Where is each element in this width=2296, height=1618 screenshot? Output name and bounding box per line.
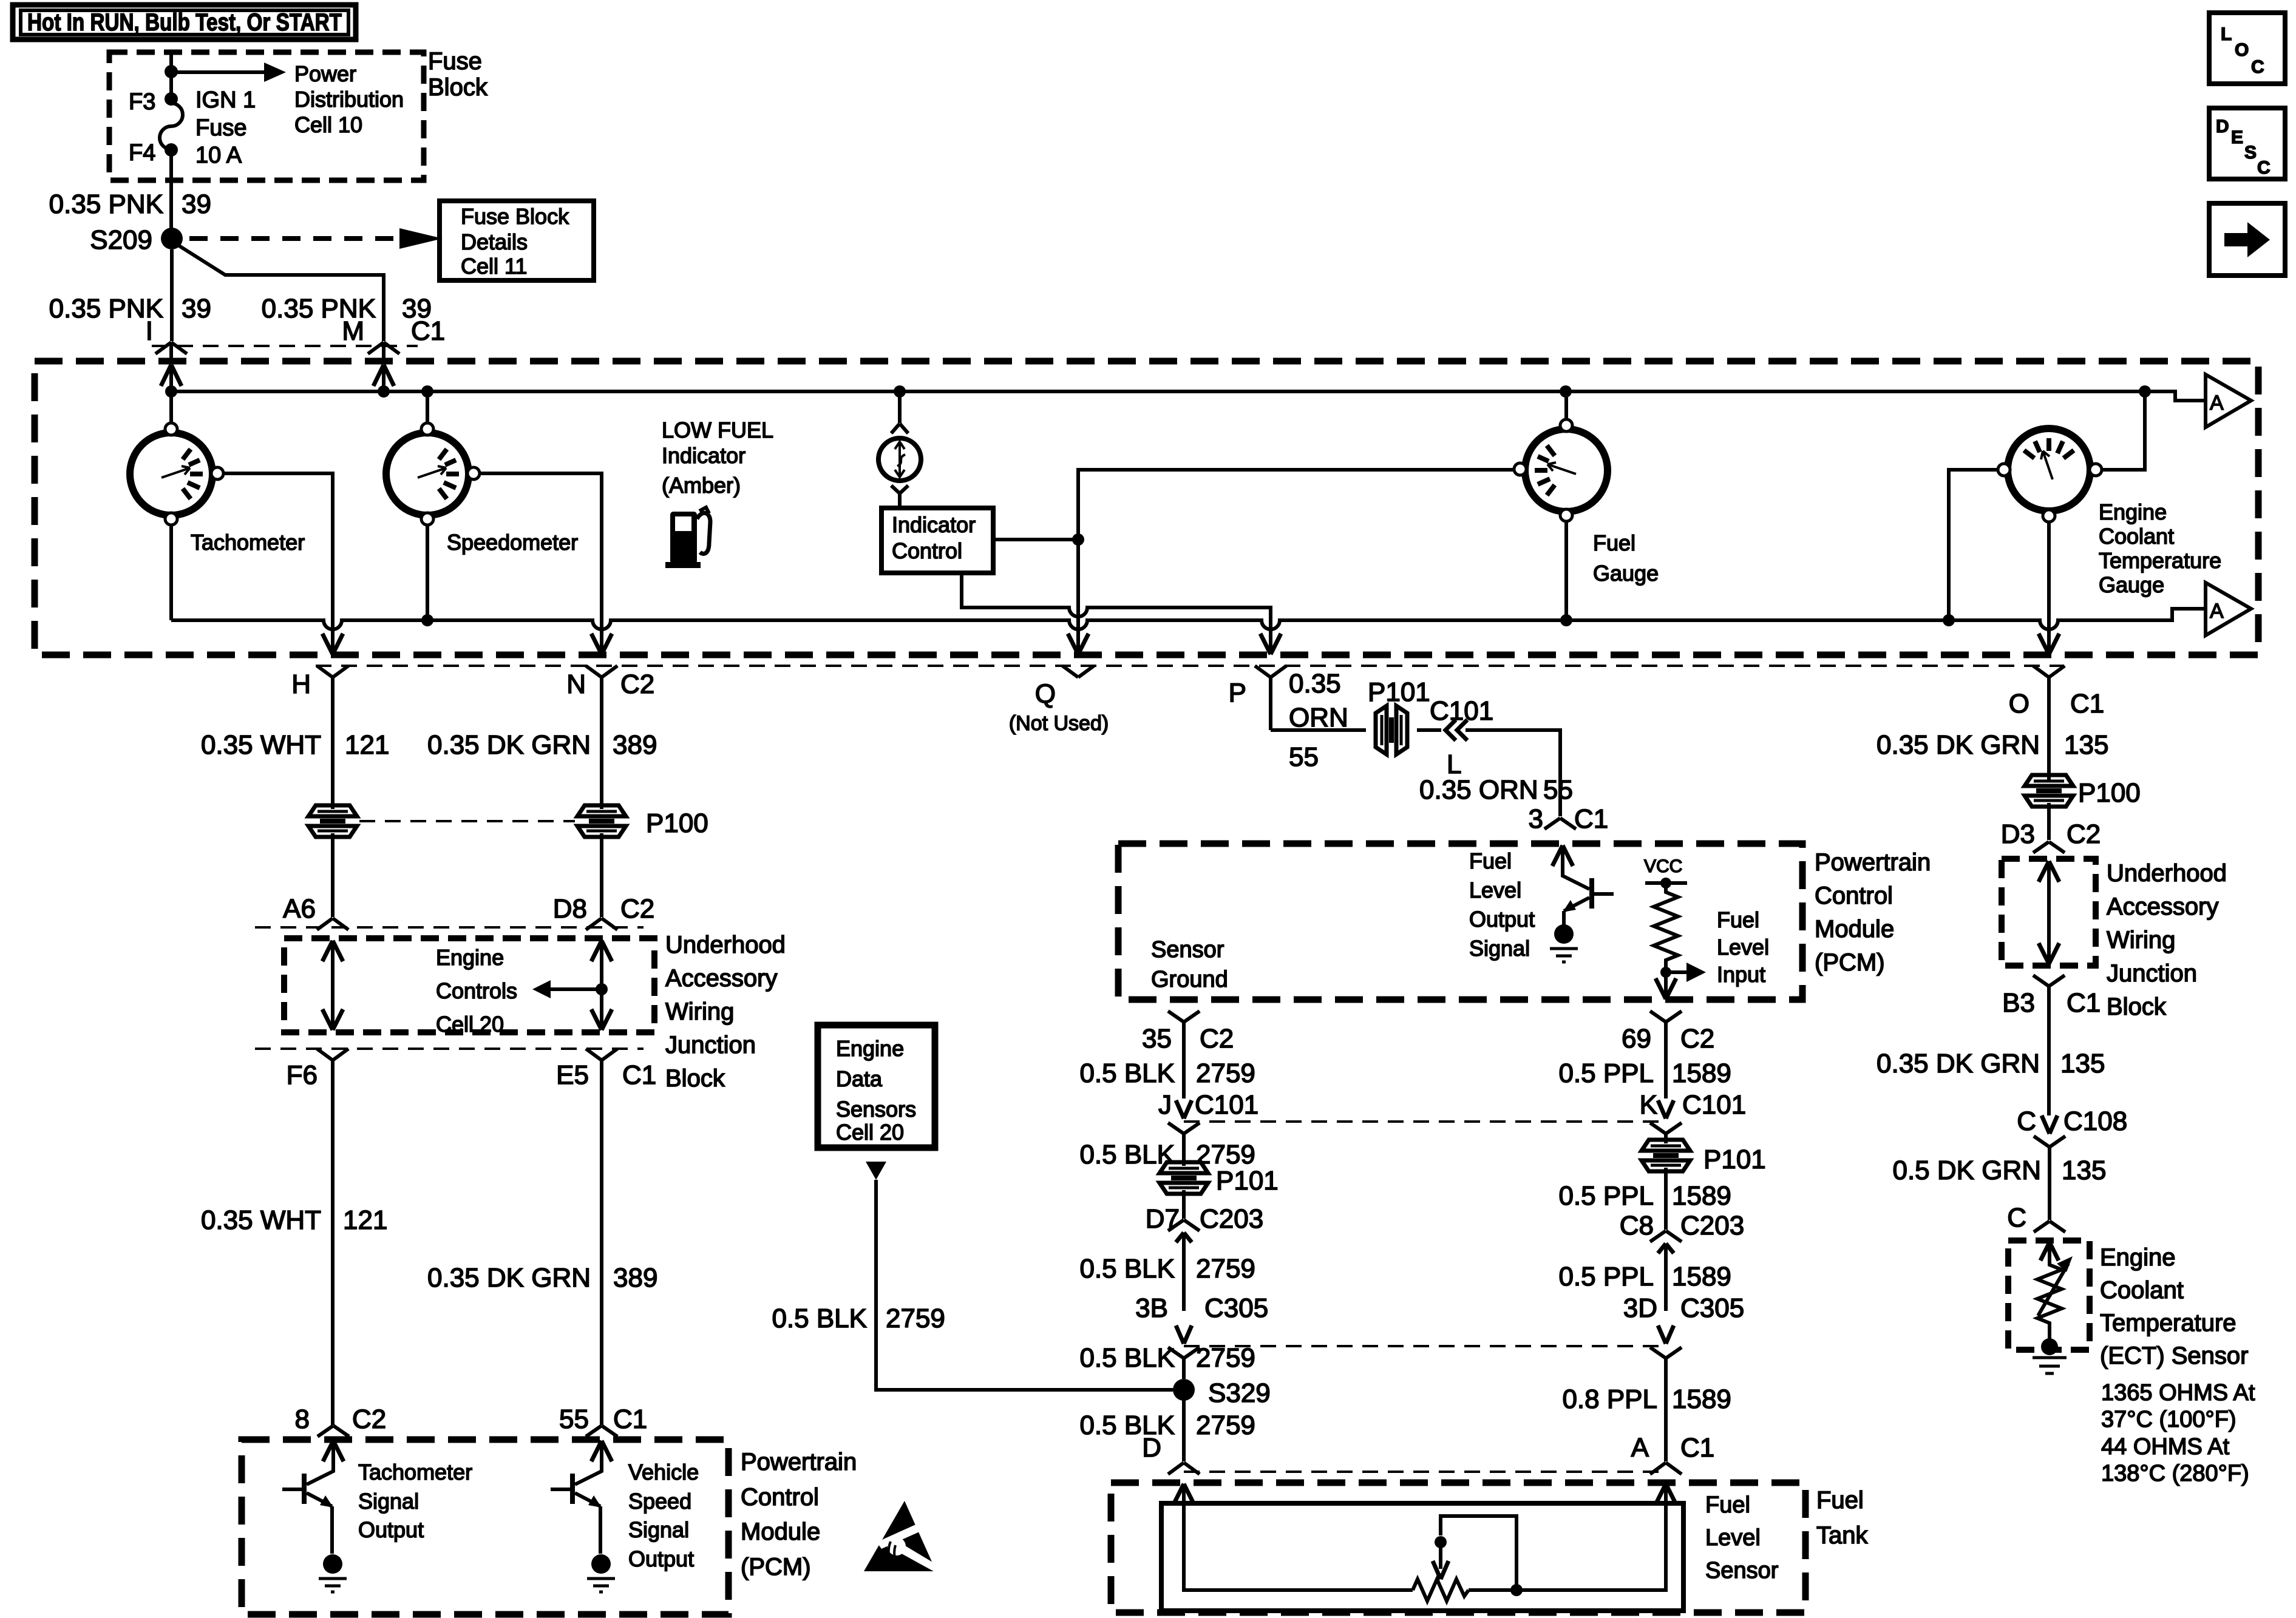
svg-text:Block: Block xyxy=(2107,993,2167,1020)
svg-text:2759: 2759 xyxy=(1196,1254,1255,1284)
svg-text:8: 8 xyxy=(295,1404,310,1434)
svg-text:C1: C1 xyxy=(411,316,445,346)
svg-text:Temperature: Temperature xyxy=(2099,548,2221,573)
svg-text:H: H xyxy=(291,669,311,699)
P101 inline connector right column xyxy=(1642,1140,1690,1171)
svg-text:Cell 11: Cell 11 xyxy=(461,254,527,279)
svg-text:P: P xyxy=(1229,678,1246,708)
wire C101 segment xyxy=(1417,728,1441,732)
svg-text:S209: S209 xyxy=(90,225,152,255)
svg-text:Level: Level xyxy=(1469,878,1521,902)
engine data sensors cell 20 box xyxy=(818,1025,935,1148)
svg-text:J: J xyxy=(1158,1090,1172,1120)
exit arrow P xyxy=(1260,634,1281,654)
svg-text:D7: D7 xyxy=(1146,1204,1180,1234)
wire below P101 left xyxy=(1182,1190,1186,1219)
svg-text:Speed: Speed xyxy=(628,1489,691,1514)
svg-text:C101: C101 xyxy=(1430,696,1493,726)
svg-text:135: 135 xyxy=(2060,1049,2105,1078)
connector chevron O xyxy=(2033,666,2065,780)
dashed link between P100 connectors xyxy=(359,820,575,822)
C101 double chevron xyxy=(1445,720,1467,740)
svg-text:Cell 10: Cell 10 xyxy=(294,112,362,137)
P101 inline connector on P wire xyxy=(1376,706,1407,754)
svg-text:B3: B3 xyxy=(2002,988,2035,1018)
wire H below P100 xyxy=(331,833,335,917)
double arrow N inside junction block xyxy=(591,941,612,1030)
svg-text:2759: 2759 xyxy=(1196,1343,1255,1373)
fuel gauge feed wire xyxy=(1564,391,1568,420)
svg-text:C203: C203 xyxy=(1200,1204,1263,1234)
svg-text:E: E xyxy=(2231,127,2243,147)
C203 connector left xyxy=(1168,1220,1200,1231)
connector chevron 3B lower xyxy=(1168,1347,1200,1379)
fuel level sensor box xyxy=(1161,1503,1683,1611)
sensor wire A side xyxy=(1469,1488,1666,1590)
svg-text:Engine: Engine xyxy=(2100,1244,2176,1271)
bottom bus wire with hops xyxy=(171,609,2206,629)
svg-text:C101: C101 xyxy=(1195,1090,1258,1120)
underhood junction block dashed box right xyxy=(2002,859,2096,966)
wire Q down through bus to Q connector xyxy=(1076,540,1080,654)
svg-text:0.5 BLK: 0.5 BLK xyxy=(772,1304,867,1333)
svg-text:F3: F3 xyxy=(129,89,155,115)
speedometer feed wire xyxy=(426,391,429,424)
entry arrow M xyxy=(373,365,394,386)
svg-text:Fuse: Fuse xyxy=(428,48,482,75)
svg-text:2759: 2759 xyxy=(1196,1410,1255,1440)
low fuel bulb feed wire xyxy=(898,391,902,423)
svg-text:Powertrain: Powertrain xyxy=(1815,849,1931,876)
DESC reference box xyxy=(2209,108,2285,179)
svg-text:(Not Used): (Not Used) xyxy=(1009,712,1109,735)
svg-text:D: D xyxy=(1142,1433,1161,1463)
svg-text:F6: F6 xyxy=(287,1060,318,1090)
svg-text:A: A xyxy=(2210,600,2224,623)
connector chevron D8 xyxy=(586,918,617,930)
svg-text:Cell 20: Cell 20 xyxy=(836,1120,904,1145)
exit arrow 69 xyxy=(1656,978,1676,999)
svg-text:C1: C1 xyxy=(2067,988,2101,1018)
svg-text:D: D xyxy=(2216,117,2229,137)
svg-text:Fuel: Fuel xyxy=(1816,1487,1864,1514)
C203 connector right xyxy=(1650,1231,1682,1242)
ECT ground xyxy=(2033,1358,2067,1373)
connector chevron K lower xyxy=(1650,1123,1682,1143)
output triangle A top xyxy=(2206,374,2251,427)
svg-text:Fuel: Fuel xyxy=(1705,1492,1750,1518)
svg-text:Engine: Engine xyxy=(2099,499,2167,524)
svg-text:A6: A6 xyxy=(283,894,316,924)
connector chevron D xyxy=(1168,1463,1200,1474)
C108 connector chevron xyxy=(2034,1136,2065,1220)
svg-text:Wiring: Wiring xyxy=(2107,927,2175,953)
thin dashed line at fuel tank connector xyxy=(1184,1471,1666,1473)
connector chevron E5 xyxy=(586,1049,617,1425)
svg-text:Level: Level xyxy=(1705,1525,1761,1551)
wiper arrow xyxy=(1433,1561,1449,1579)
svg-text:C2: C2 xyxy=(352,1404,386,1434)
svg-text:1589: 1589 xyxy=(1672,1181,1731,1211)
svg-text:0.35 WHT: 0.35 WHT xyxy=(201,1205,321,1235)
bulb connector bottom xyxy=(891,486,908,508)
P100 pass-through connector right xyxy=(577,805,626,837)
splice S329 xyxy=(1173,1379,1195,1401)
svg-text:Gauge: Gauge xyxy=(2099,572,2164,597)
junction node on Q wire xyxy=(1072,533,1084,546)
svg-text:Details: Details xyxy=(461,229,528,254)
svg-text:I: I xyxy=(146,316,153,346)
fuse block dashed box xyxy=(109,52,424,180)
double arrow H inside junction block xyxy=(322,941,343,1030)
svg-text:C: C xyxy=(2007,1203,2026,1233)
svg-text:IGN 1: IGN 1 xyxy=(195,87,256,113)
svg-text:Ground: Ground xyxy=(1151,967,1228,992)
wire indicator control bottom to P xyxy=(962,575,1271,654)
C305 crossing arrow 3D xyxy=(1658,1325,1674,1344)
fuel pump icon xyxy=(665,507,710,568)
svg-text:0.8 PPL: 0.8 PPL xyxy=(1562,1384,1657,1414)
svg-text:69: 69 xyxy=(1622,1024,1651,1054)
speedometer gauge xyxy=(386,423,480,525)
svg-text:0.5 BLK: 0.5 BLK xyxy=(1079,1058,1175,1088)
svg-text:0.35 DK GRN: 0.35 DK GRN xyxy=(1877,730,2040,760)
exit arrow O xyxy=(2039,634,2059,654)
svg-text:Signal: Signal xyxy=(1469,936,1530,961)
LOC reference box xyxy=(2209,13,2285,84)
tachometer right terminal wire to H xyxy=(223,473,333,654)
thin dashed connector line below cluster xyxy=(316,665,2064,667)
sensor wire D side xyxy=(1184,1488,1413,1590)
svg-text:C2: C2 xyxy=(620,894,654,924)
top bus wire xyxy=(171,391,2206,401)
svg-text:Indicator: Indicator xyxy=(662,443,746,468)
svg-text:39: 39 xyxy=(182,189,211,219)
svg-text:Signal: Signal xyxy=(358,1489,419,1514)
svg-text:1589: 1589 xyxy=(1672,1262,1731,1291)
connector chevron D3 xyxy=(2033,842,2065,853)
wire S329 to D xyxy=(1182,1390,1186,1461)
svg-text:(ECT) Sensor: (ECT) Sensor xyxy=(2100,1342,2249,1369)
fuel level output transistor xyxy=(1550,845,1614,962)
svg-text:Power: Power xyxy=(294,61,356,86)
connector chevron H xyxy=(317,666,348,809)
svg-text:Gauge: Gauge xyxy=(1593,561,1659,586)
wire indicator control to junction xyxy=(996,538,1078,541)
svg-text:Wiring: Wiring xyxy=(665,998,734,1025)
svg-text:ORN: ORN xyxy=(1289,703,1348,733)
svg-text:37°C (100°F): 37°C (100°F) xyxy=(2101,1407,2237,1432)
svg-text:39: 39 xyxy=(182,294,211,323)
C305 crossing arrow 3B xyxy=(1176,1325,1192,1344)
sender resistor xyxy=(1413,1579,1469,1601)
connector chevron I xyxy=(155,342,187,359)
svg-text:Sensor: Sensor xyxy=(1151,937,1224,963)
svg-text:55: 55 xyxy=(1543,775,1573,805)
ECT sensor dashed box xyxy=(2008,1241,2090,1350)
connector chevron J lower xyxy=(1168,1123,1200,1166)
svg-text:Sensors: Sensors xyxy=(836,1097,916,1122)
engine coolant temperature gauge xyxy=(1998,428,2102,522)
svg-text:LOW FUEL: LOW FUEL xyxy=(662,418,773,442)
svg-text:(PCM): (PCM) xyxy=(1815,949,1885,976)
svg-text:C101: C101 xyxy=(1682,1090,1746,1120)
fuel gauge xyxy=(1514,419,1608,521)
svg-text:3D: 3D xyxy=(1623,1293,1657,1323)
svg-text:55: 55 xyxy=(559,1404,589,1434)
svg-text:P101: P101 xyxy=(1216,1166,1279,1196)
wire S209 to I xyxy=(170,249,174,341)
arrow to Power Distribution xyxy=(171,70,265,74)
svg-text:C: C xyxy=(2257,158,2271,178)
thin dashed connector line at F6/E5 xyxy=(255,1048,644,1050)
svg-text:C8: C8 xyxy=(1620,1211,1654,1241)
wire C101 to 3 C1 xyxy=(1466,730,1560,816)
wire fuse to S209 xyxy=(169,153,173,229)
svg-text:10 A: 10 A xyxy=(195,143,242,168)
svg-text:L: L xyxy=(2221,24,2232,44)
svg-text:44 OHMS At: 44 OHMS At xyxy=(2101,1434,2230,1460)
tachometer bottom wire to bus xyxy=(169,525,173,620)
svg-text:C: C xyxy=(2017,1106,2036,1136)
connector chevron 55 xyxy=(586,1426,617,1437)
junction dots on bottom bus xyxy=(421,614,433,626)
svg-text:Module: Module xyxy=(741,1518,820,1545)
svg-text:Signal: Signal xyxy=(628,1517,689,1542)
fuel tank dashed box xyxy=(1111,1483,1805,1613)
connector chevron M xyxy=(368,342,399,359)
arrow reference box xyxy=(2209,203,2285,276)
svg-text:Underhood: Underhood xyxy=(2107,860,2227,887)
wire P100 to D3 xyxy=(2047,803,2051,840)
svg-text:Engine: Engine xyxy=(836,1036,904,1061)
svg-text:N: N xyxy=(566,669,586,699)
junction dot below resistor xyxy=(1660,967,1671,978)
svg-text:C203: C203 xyxy=(1680,1211,1744,1241)
splice S209 xyxy=(161,228,183,249)
coolant gauge left terminal wire to bus xyxy=(1949,470,1998,620)
svg-text:Distribution: Distribution xyxy=(294,87,404,112)
connector chevron 8 xyxy=(318,1426,349,1437)
svg-text:Accessory: Accessory xyxy=(2107,893,2219,920)
svg-text:0.35 DK GRN: 0.35 DK GRN xyxy=(427,730,591,760)
svg-text:Block: Block xyxy=(665,1065,725,1092)
coolant gauge feed wire from bus xyxy=(2102,391,2145,470)
svg-text:C305: C305 xyxy=(1204,1293,1268,1323)
svg-text:0.35 PNK: 0.35 PNK xyxy=(49,189,163,219)
C101 crossing arrow K xyxy=(1658,1100,1674,1119)
svg-text:C1: C1 xyxy=(613,1404,647,1434)
dashed reference arrow to Fuse Block Details xyxy=(189,236,398,241)
wire from fuse block top to fuse xyxy=(169,53,173,94)
svg-text:Coolant: Coolant xyxy=(2100,1277,2184,1304)
svg-text:389: 389 xyxy=(613,1263,657,1293)
svg-text:O: O xyxy=(2235,40,2249,60)
svg-text:Hot In RUN, Bulb Test, Or STAR: Hot In RUN, Bulb Test, Or START xyxy=(27,9,342,36)
svg-text:Temperature: Temperature xyxy=(2100,1310,2237,1336)
svg-text:Speedometer: Speedometer xyxy=(447,530,578,555)
svg-text:E5: E5 xyxy=(556,1060,589,1090)
svg-text:Junction: Junction xyxy=(2107,960,2197,987)
ESD warning triangle xyxy=(864,1501,942,1574)
svg-text:Engine: Engine xyxy=(436,945,504,970)
svg-text:Module: Module xyxy=(1815,916,1894,943)
ECT variable arrow xyxy=(2038,1264,2068,1316)
connector chevron 35 xyxy=(1168,1011,1200,1098)
svg-text:Q: Q xyxy=(1035,679,1056,709)
C101 crossing arrow J xyxy=(1176,1100,1192,1119)
svg-text:0.5 BLK: 0.5 BLK xyxy=(1079,1140,1175,1169)
svg-text:Level: Level xyxy=(1717,935,1769,960)
svg-text:P100: P100 xyxy=(646,808,708,838)
svg-text:C1: C1 xyxy=(2070,689,2104,719)
P100 pass-through connector left xyxy=(308,805,357,837)
exit arrow Q xyxy=(1068,634,1089,654)
wire junction up and right to fuel gauge left terminal xyxy=(1078,470,1515,540)
node at power distribution tap xyxy=(165,65,178,78)
svg-text:C1: C1 xyxy=(622,1060,656,1090)
svg-text:C1: C1 xyxy=(1680,1433,1714,1463)
svg-text:Vehicle: Vehicle xyxy=(628,1460,699,1484)
svg-text:P101: P101 xyxy=(1703,1145,1766,1174)
svg-text:Indicator: Indicator xyxy=(892,512,976,537)
svg-text:Control: Control xyxy=(741,1484,819,1511)
underhood junction block dashed box left xyxy=(284,938,654,1032)
svg-text:Powertrain: Powertrain xyxy=(741,1449,857,1475)
connector chevron N xyxy=(586,666,617,809)
connector chevron C at ECT xyxy=(2034,1221,2065,1232)
wiper junction dot xyxy=(1510,1584,1523,1596)
svg-text:Sensor: Sensor xyxy=(1705,1558,1779,1583)
svg-text:1589: 1589 xyxy=(1672,1058,1731,1088)
fuse element xyxy=(165,92,178,106)
svg-text:P101: P101 xyxy=(1368,677,1430,707)
svg-text:D8: D8 xyxy=(553,894,587,924)
bulb connector top xyxy=(891,424,908,433)
svg-text:0.35 ORN: 0.35 ORN xyxy=(1419,775,1538,805)
ECT entry arrow xyxy=(2040,1242,2059,1261)
thin dashed line at C101 xyxy=(1184,1120,1666,1123)
svg-text:C305: C305 xyxy=(1680,1293,1744,1323)
svg-text:135: 135 xyxy=(2062,1156,2106,1185)
svg-text:C: C xyxy=(2251,57,2264,77)
svg-text:O: O xyxy=(2009,689,2029,719)
svg-text:Data: Data xyxy=(836,1066,883,1091)
svg-text:0.35 DK GRN: 0.35 DK GRN xyxy=(427,1263,591,1293)
svg-text:1589: 1589 xyxy=(1672,1384,1731,1414)
svg-text:A: A xyxy=(2210,391,2224,415)
svg-text:0.5 BLK: 0.5 BLK xyxy=(1079,1254,1175,1284)
output triangle A bottom xyxy=(2206,583,2251,635)
fuel level input arrow xyxy=(1666,970,1686,974)
entry arrow I xyxy=(161,365,182,386)
junction dots on top bus xyxy=(165,385,177,398)
connector chevron B3 xyxy=(2033,975,2065,1115)
svg-text:3B: 3B xyxy=(1135,1293,1168,1323)
exit arrow N xyxy=(591,634,612,654)
PCM dashed box middle xyxy=(1118,844,1802,1000)
thin dashed connector line at A6/D8 xyxy=(255,926,644,929)
svg-text:F4: F4 xyxy=(129,140,155,166)
C108 connector arrow xyxy=(2042,1115,2057,1134)
connector chevron A6 xyxy=(317,918,348,930)
svg-text:Junction: Junction xyxy=(665,1032,756,1058)
svg-text:Block: Block xyxy=(428,74,488,101)
low fuel indicator bulb xyxy=(878,438,921,481)
connector chevron 3 C1 xyxy=(1544,818,1576,829)
svg-text:Fuse: Fuse xyxy=(195,115,246,141)
entry arrow A into tank xyxy=(1656,1484,1676,1505)
connector chevron 69 xyxy=(1650,1011,1682,1098)
P100 pass-through connector right column xyxy=(2025,775,2073,807)
svg-text:C2: C2 xyxy=(1680,1024,1714,1054)
svg-text:1365 OHMS At: 1365 OHMS At xyxy=(2101,1380,2255,1406)
svg-text:P100: P100 xyxy=(2078,778,2141,808)
tachometer gauge xyxy=(130,423,223,525)
vehicle speed signal output transistor xyxy=(551,1441,615,1592)
svg-text:0.35 DK GRN: 0.35 DK GRN xyxy=(1877,1049,2040,1078)
svg-text:D3: D3 xyxy=(2001,819,2035,849)
svg-text:2759: 2759 xyxy=(1196,1058,1255,1088)
VCC rail xyxy=(1645,881,1687,885)
P101 inline connector left column xyxy=(1160,1162,1208,1194)
connector chevron P xyxy=(1255,666,1286,730)
wire S209 to M xyxy=(179,246,384,341)
svg-text:138°C (280°F): 138°C (280°F) xyxy=(2101,1461,2249,1486)
connector chevron 3D lower xyxy=(1650,1347,1682,1461)
PCM dashed box left xyxy=(242,1440,729,1614)
svg-text:Fuel: Fuel xyxy=(1593,530,1635,555)
svg-text:Controls: Controls xyxy=(436,978,517,1003)
svg-text:A: A xyxy=(1631,1433,1649,1463)
svg-text:Output: Output xyxy=(628,1546,694,1571)
svg-text:Accessory: Accessory xyxy=(665,965,778,992)
svg-text:Tachometer: Tachometer xyxy=(191,530,305,555)
svg-text:M: M xyxy=(342,316,364,346)
entry arrow D into tank xyxy=(1173,1484,1194,1505)
svg-text:C2: C2 xyxy=(1200,1024,1234,1054)
engine controls tap arrow xyxy=(596,983,608,995)
svg-text:Control: Control xyxy=(892,538,962,563)
svg-text:121: 121 xyxy=(345,730,389,760)
indicator control box xyxy=(881,508,993,573)
svg-text:3: 3 xyxy=(1529,804,1543,834)
connector chevron F6 xyxy=(317,1049,348,1425)
svg-text:Tachometer: Tachometer xyxy=(358,1460,472,1484)
svg-text:S329: S329 xyxy=(1208,1378,1271,1408)
svg-text:C1: C1 xyxy=(1574,804,1608,834)
fuel gauge bottom wire to bus xyxy=(1564,521,1568,620)
svg-text:Tank: Tank xyxy=(1816,1522,1868,1549)
svg-text:0.5 DK GRN: 0.5 DK GRN xyxy=(1892,1156,2041,1185)
svg-text:0.5 PPL: 0.5 PPL xyxy=(1558,1181,1654,1211)
svg-text:VCC: VCC xyxy=(1644,856,1682,876)
svg-text:0.35 WHT: 0.35 WHT xyxy=(201,730,321,760)
wire N below P100 xyxy=(600,833,603,917)
instrument cluster dashed box xyxy=(35,361,2258,655)
wiper wire xyxy=(1441,1516,1517,1590)
svg-text:389: 389 xyxy=(613,730,657,760)
speedometer bottom wire to bus xyxy=(426,525,429,620)
svg-text:Cell 20: Cell 20 xyxy=(436,1012,504,1037)
svg-text:0.5 BLK: 0.5 BLK xyxy=(1079,1343,1175,1373)
wire below P101 right xyxy=(1664,1168,1668,1230)
svg-text:55: 55 xyxy=(1289,742,1319,772)
tachometer feed wire xyxy=(169,391,173,424)
svg-text:Fuel: Fuel xyxy=(1717,907,1759,932)
double arrow inside right junction block xyxy=(2039,861,2059,964)
wire engine data sensors to S329 xyxy=(876,1180,1173,1390)
